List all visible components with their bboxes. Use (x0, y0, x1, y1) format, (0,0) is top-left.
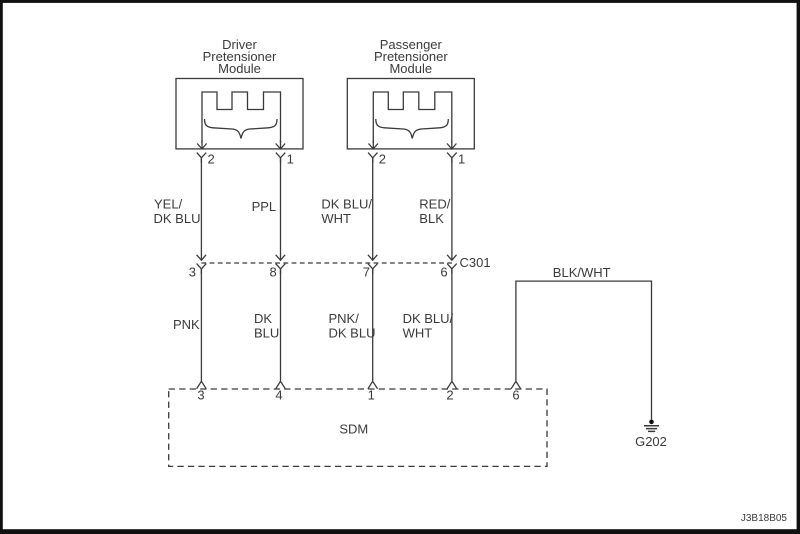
driver pin 1 terminal (276, 153, 285, 163)
svg-text:BLU: BLU (254, 325, 279, 340)
passenger squib element (373, 92, 452, 143)
driver brace (205, 119, 278, 139)
wire PNK (C301 pin3 to SDM pin3) (200, 269, 202, 381)
connector C301 dashed line (201, 262, 452, 264)
wire BLK/WHT (SDM pin6 to G202) (516, 281, 652, 420)
svg-text:6: 6 (512, 388, 519, 403)
SDM pin 2 terminal (447, 381, 457, 389)
C301 pin 3 terminal (197, 264, 207, 274)
svg-text:SDM: SDM (339, 421, 368, 436)
C301 pin 6 terminal (447, 264, 457, 274)
wire DK BLU/WHT (passenger pin2 to C301 pin7) (368, 158, 377, 260)
svg-text:C301: C301 (460, 255, 491, 270)
svg-text:BLK/WHT: BLK/WHT (553, 265, 611, 280)
svg-text:WHT: WHT (321, 211, 351, 226)
svg-text:J3B18B05: J3B18B05 (741, 513, 788, 524)
C301 pin 8 terminal (276, 264, 286, 274)
svg-text:1: 1 (458, 151, 465, 166)
svg-text:DK: DK (254, 311, 272, 326)
svg-text:YEL/: YEL/ (154, 197, 183, 212)
wire RED/BLK (passenger pin1 to C301 pin6) (447, 158, 456, 260)
svg-text:Module: Module (218, 61, 261, 76)
svg-text:1: 1 (368, 388, 375, 403)
svg-text:RED/: RED/ (419, 197, 450, 212)
svg-text:2: 2 (208, 151, 215, 166)
SDM pin 4 terminal (276, 381, 286, 389)
svg-text:8: 8 (269, 265, 276, 280)
driver pin 2 terminal (197, 153, 206, 163)
svg-text:G202: G202 (635, 434, 667, 449)
svg-text:4: 4 (275, 388, 282, 403)
svg-text:7: 7 (363, 265, 370, 280)
passenger pin 2 arrow (369, 140, 378, 149)
svg-text:Module: Module (389, 61, 432, 76)
passenger pin 1 arrow (447, 140, 456, 149)
SDM pin 1 terminal (368, 381, 378, 389)
svg-text:PNK: PNK (173, 317, 200, 332)
wire YEL/DK BLU (driver pin2 to C301 pin3) (197, 158, 206, 260)
svg-text:1: 1 (287, 151, 294, 166)
ground G202 symbol (644, 420, 659, 432)
passenger pin 2 terminal (368, 153, 377, 163)
C301 pin 7 terminal (368, 264, 378, 274)
svg-text:3: 3 (197, 388, 204, 403)
SDM pin 6 terminal (511, 381, 521, 389)
driver pretensioner module box (176, 79, 303, 149)
svg-text:3: 3 (189, 265, 196, 280)
svg-text:PNK/: PNK/ (329, 311, 360, 326)
svg-text:2: 2 (379, 151, 386, 166)
svg-text:WHT: WHT (403, 325, 433, 340)
svg-text:DK BLU/: DK BLU/ (403, 311, 454, 326)
wire DK BLU/WHT lower (C301 pin6 to SDM pin2) (451, 269, 453, 381)
passenger pin 1 terminal (447, 153, 457, 163)
svg-text:DK BLU/: DK BLU/ (321, 197, 372, 212)
wire PPL (driver pin1 to C301 pin8) (276, 158, 285, 260)
SDM box dashed (169, 389, 547, 466)
svg-text:DK BLU: DK BLU (154, 211, 201, 226)
svg-text:BLK: BLK (419, 211, 444, 226)
driver squib element (202, 92, 281, 143)
driver pin 1 arrow (276, 140, 285, 149)
wire PNK/DK BLU (C301 pin7 to SDM pin1) (372, 269, 374, 381)
SDM pin 3 terminal (197, 381, 207, 389)
driver pin 2 arrow (197, 140, 206, 149)
svg-text:2: 2 (446, 388, 453, 403)
passenger pretensioner module box (347, 79, 474, 149)
svg-text:DK BLU: DK BLU (329, 325, 376, 340)
wire DK BLU (C301 pin8 to SDM pin4) (280, 269, 282, 381)
svg-text:PPL: PPL (252, 199, 277, 214)
passenger brace (376, 119, 449, 139)
svg-text:6: 6 (440, 265, 447, 280)
